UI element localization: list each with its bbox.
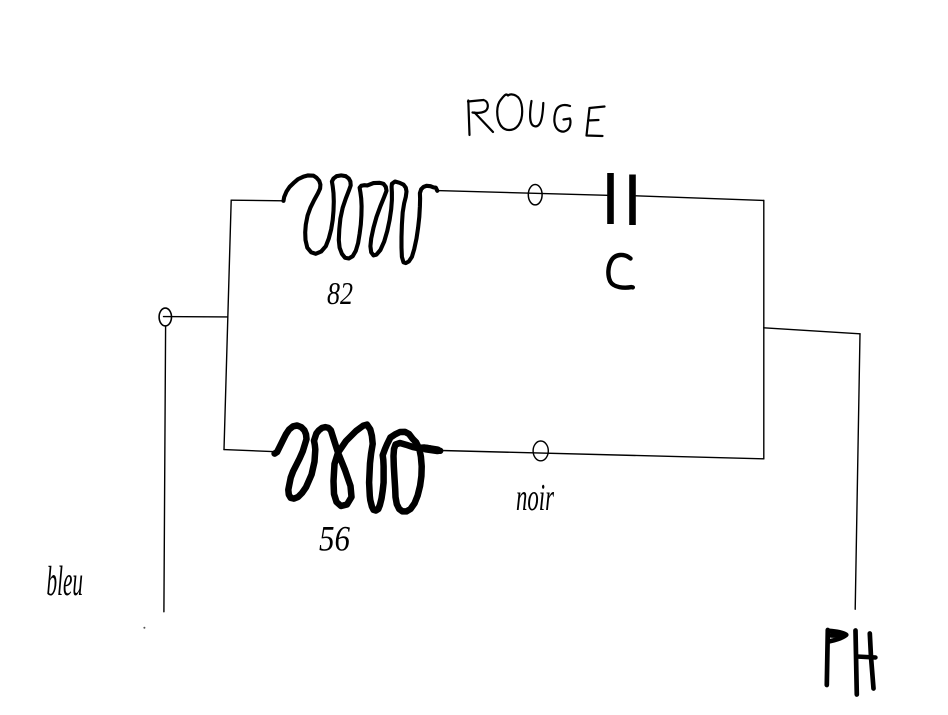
stray ink speck (143, 627, 145, 629)
net label PH: letter P (827, 630, 828, 685)
wire left vertical of loop (224, 200, 231, 449)
wire PH lead vertical (855, 334, 860, 610)
node bleu terminal (left circle) (159, 308, 171, 326)
wire bottom-left horizontal (to inductor 56) (224, 450, 279, 452)
net label ROUGE: letter E (587, 107, 605, 137)
wire right vertical of loop (763, 201, 765, 459)
svg-text:bleu: bleu (47, 559, 84, 605)
reference label "C" (hand-drawn) (608, 255, 632, 288)
inductor 56 (hand-drawn scribble coil) (275, 425, 441, 512)
net label PH: letter H (856, 631, 857, 695)
wire left long vertical (bleu lead) (164, 326, 166, 612)
net label ROUGE: letter O (497, 94, 522, 130)
svg-text:noir: noir (516, 477, 554, 519)
capacitor C right plate (629, 175, 636, 226)
net label ROUGE: letter U (530, 101, 543, 126)
net label ROUGE: letter G (554, 105, 570, 132)
wire capacitor to top-right corner (636, 196, 764, 201)
node ROUGE terminal (top circle) (528, 185, 542, 205)
wire top-left horizontal (corner to inductor 82) (231, 199, 284, 202)
wire node bleu to left vertical (164, 316, 228, 318)
net label ROUGE: letter R (468, 101, 469, 136)
wire bottom horizontal (inductor 56 to right corner, through node noir) (442, 451, 764, 459)
wire inductor 82 to capacitor (through node ROUGE) (437, 191, 607, 196)
wire branch horizontal to PH lead (764, 328, 860, 334)
svg-text:82: 82 (327, 275, 353, 311)
capacitor C left plate (607, 173, 614, 224)
inductor 56 tail dash (426, 449, 438, 451)
inductor 82 (hand-drawn scribble coil) (284, 175, 438, 263)
svg-text:56: 56 (319, 519, 350, 559)
node noir terminal (bottom circle) (533, 441, 548, 461)
